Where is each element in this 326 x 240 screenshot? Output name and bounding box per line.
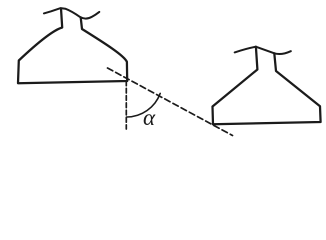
left boat hull outline with masts [18, 9, 127, 84]
label alpha [143, 105, 155, 131]
dashed incline line through both hull corners [108, 68, 233, 136]
right boat hull outline with masts [213, 47, 321, 125]
dashed vertical reference line [125, 81, 127, 129]
angle arc [127, 93, 161, 117]
left boat top wavy rail [44, 8, 99, 19]
right boat top wavy rail [235, 47, 291, 54]
